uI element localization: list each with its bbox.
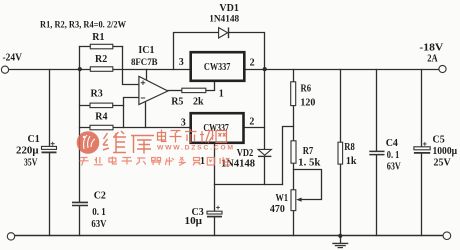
ground stub <box>340 236 342 244</box>
resistor R4 <box>90 125 113 130</box>
capacitor C4 <box>369 151 384 154</box>
svg-text:IC1: IC1 <box>138 45 154 56</box>
wire lower pin 1 / C3 branch <box>214 143 216 236</box>
capacitor C5 <box>414 147 430 150</box>
diode VD1 <box>219 28 228 38</box>
svg-text:R2: R2 <box>95 54 107 65</box>
svg-text:1. 5k: 1. 5k <box>298 158 321 169</box>
wire bottom ground rail <box>15 235 443 237</box>
svg-text:2A: 2A <box>427 53 438 64</box>
svg-text:3: 3 <box>179 57 184 68</box>
capacitor C2 <box>72 202 88 205</box>
wire VD1 to output junction <box>229 33 265 70</box>
resistor R1 <box>90 44 113 49</box>
svg-text:C4: C4 <box>386 138 398 149</box>
svg-text:R1, R2, R3, R4=0. 2/2W: R1, R2, R3, R4=0. 2/2W <box>40 20 127 30</box>
svg-text:1N4148: 1N4148 <box>221 159 255 170</box>
svg-text:1N4148: 1N4148 <box>209 15 239 25</box>
wire main input rail <box>9 69 91 71</box>
svg-text:R8: R8 <box>344 142 355 153</box>
svg-text:R5: R5 <box>171 96 183 107</box>
wire left bus x=80 <box>79 47 81 236</box>
wm char ku <box>131 136 154 154</box>
svg-text:63V: 63V <box>91 219 107 230</box>
svg-text:1k: 1k <box>346 156 357 167</box>
diode VD2 <box>258 149 271 155</box>
resistor R5 <box>182 88 206 92</box>
wire R5 to upper pin 1 <box>206 81 215 90</box>
wm char dian <box>158 130 167 142</box>
svg-text:25V: 25V <box>434 158 452 169</box>
svg-text:-24V: -24V <box>3 53 23 64</box>
wire W1 bottom <box>293 211 295 236</box>
wm char wei <box>103 131 126 153</box>
svg-text:C2: C2 <box>94 190 106 201</box>
svg-text:2: 2 <box>250 58 255 69</box>
svg-text:R4: R4 <box>95 112 107 123</box>
svg-text:R6: R6 <box>301 83 312 94</box>
svg-text:CW337: CW337 <box>204 62 231 73</box>
regulator U2 upper CW337 <box>191 52 245 81</box>
terminal -18V <box>439 65 446 72</box>
svg-text:2: 2 <box>249 117 254 128</box>
wire R6 branch <box>293 70 295 141</box>
wire R2 to upper CW337 pin 3 <box>113 69 190 71</box>
resistor R3 <box>90 103 113 108</box>
wire C1 branch <box>49 70 51 236</box>
svg-text:R1: R1 <box>92 32 104 43</box>
wire VD1/VD2 vertical <box>264 70 266 150</box>
wire R6/R7 tap vertical <box>283 127 294 185</box>
potentiometer W1 <box>291 190 296 211</box>
svg-text:220μ: 220μ <box>16 145 39 156</box>
svg-text:3: 3 <box>181 117 186 128</box>
wire R4 row to lower CW337 pin 3 <box>80 127 191 129</box>
wire -input vertical <box>124 98 139 128</box>
terminal bottom-right <box>443 232 451 240</box>
svg-text:1: 1 <box>200 156 205 167</box>
op-amp U1 triangle <box>139 76 168 104</box>
svg-text:10μ: 10μ <box>185 216 203 227</box>
svg-text:35V: 35V <box>24 157 38 168</box>
wm char chang <box>200 131 214 144</box>
svg-text:0. 1: 0. 1 <box>92 207 106 218</box>
svg-text:VD1: VD1 <box>219 3 238 14</box>
wire ADJ node horizontal <box>215 184 283 186</box>
resistor R8 <box>338 142 343 164</box>
svg-text:C1: C1 <box>28 134 40 145</box>
ground <box>332 242 348 244</box>
resistor R2 <box>90 67 113 72</box>
svg-text:C5: C5 <box>433 134 445 145</box>
wire VD2 cathode down <box>264 156 266 184</box>
svg-text:120: 120 <box>300 98 315 109</box>
svg-text:2k: 2k <box>193 96 204 107</box>
wire R7-W1 link <box>293 163 295 190</box>
wire op-amp V- supply <box>145 102 147 128</box>
wire C4 branch <box>376 70 378 236</box>
watermark <box>77 129 234 166</box>
svg-text:1000μ: 1000μ <box>433 146 458 157</box>
terminal bottom-left <box>7 233 14 240</box>
wire W1 wiper loop <box>294 170 322 200</box>
wire R1 row <box>80 46 123 48</box>
svg-text:R3: R3 <box>91 89 103 100</box>
resistor R7 <box>291 141 296 163</box>
wm char shi <box>185 129 197 143</box>
node junction dot ground/R8 <box>338 234 342 238</box>
svg-text:470: 470 <box>270 204 285 215</box>
regulator U3 lower CW337 <box>191 113 244 143</box>
svg-text:-18V: -18V <box>419 43 443 54</box>
wm char wang <box>216 131 227 143</box>
wire op-amp V+ supply <box>146 70 148 81</box>
svg-text:8FC7B: 8FC7B <box>131 57 158 67</box>
wm char zi <box>170 131 182 143</box>
svg-text:VD2: VD2 <box>237 148 254 159</box>
terminal -24V <box>1 66 8 73</box>
wire lower pin 2 <box>243 127 264 129</box>
svg-text:0. 1: 0. 1 <box>387 150 400 161</box>
node junction dot input <box>78 67 82 71</box>
wire C5 branch <box>421 70 423 236</box>
wire R1 right drop to +input <box>123 47 139 85</box>
wm slogan row <box>80 157 231 166</box>
svg-text:63V: 63V <box>387 161 402 172</box>
svg-text:1: 1 <box>219 88 224 99</box>
wire op-amp output to R5 <box>168 90 182 92</box>
capacitor C1 <box>42 146 57 149</box>
wire VD1 left leg <box>174 33 219 70</box>
resistor R6 <box>291 82 296 106</box>
wire R3 row <box>80 105 124 107</box>
svg-text:W1: W1 <box>276 193 289 204</box>
svg-text:WWW.DZSC.COM: WWW.DZSC.COM <box>157 145 233 152</box>
capacitor C3 <box>207 211 222 214</box>
wire output rail <box>244 69 439 71</box>
node junction dot output/VD1 <box>263 67 267 71</box>
wire R8 branch <box>340 70 342 236</box>
svg-text:R7: R7 <box>303 146 314 157</box>
